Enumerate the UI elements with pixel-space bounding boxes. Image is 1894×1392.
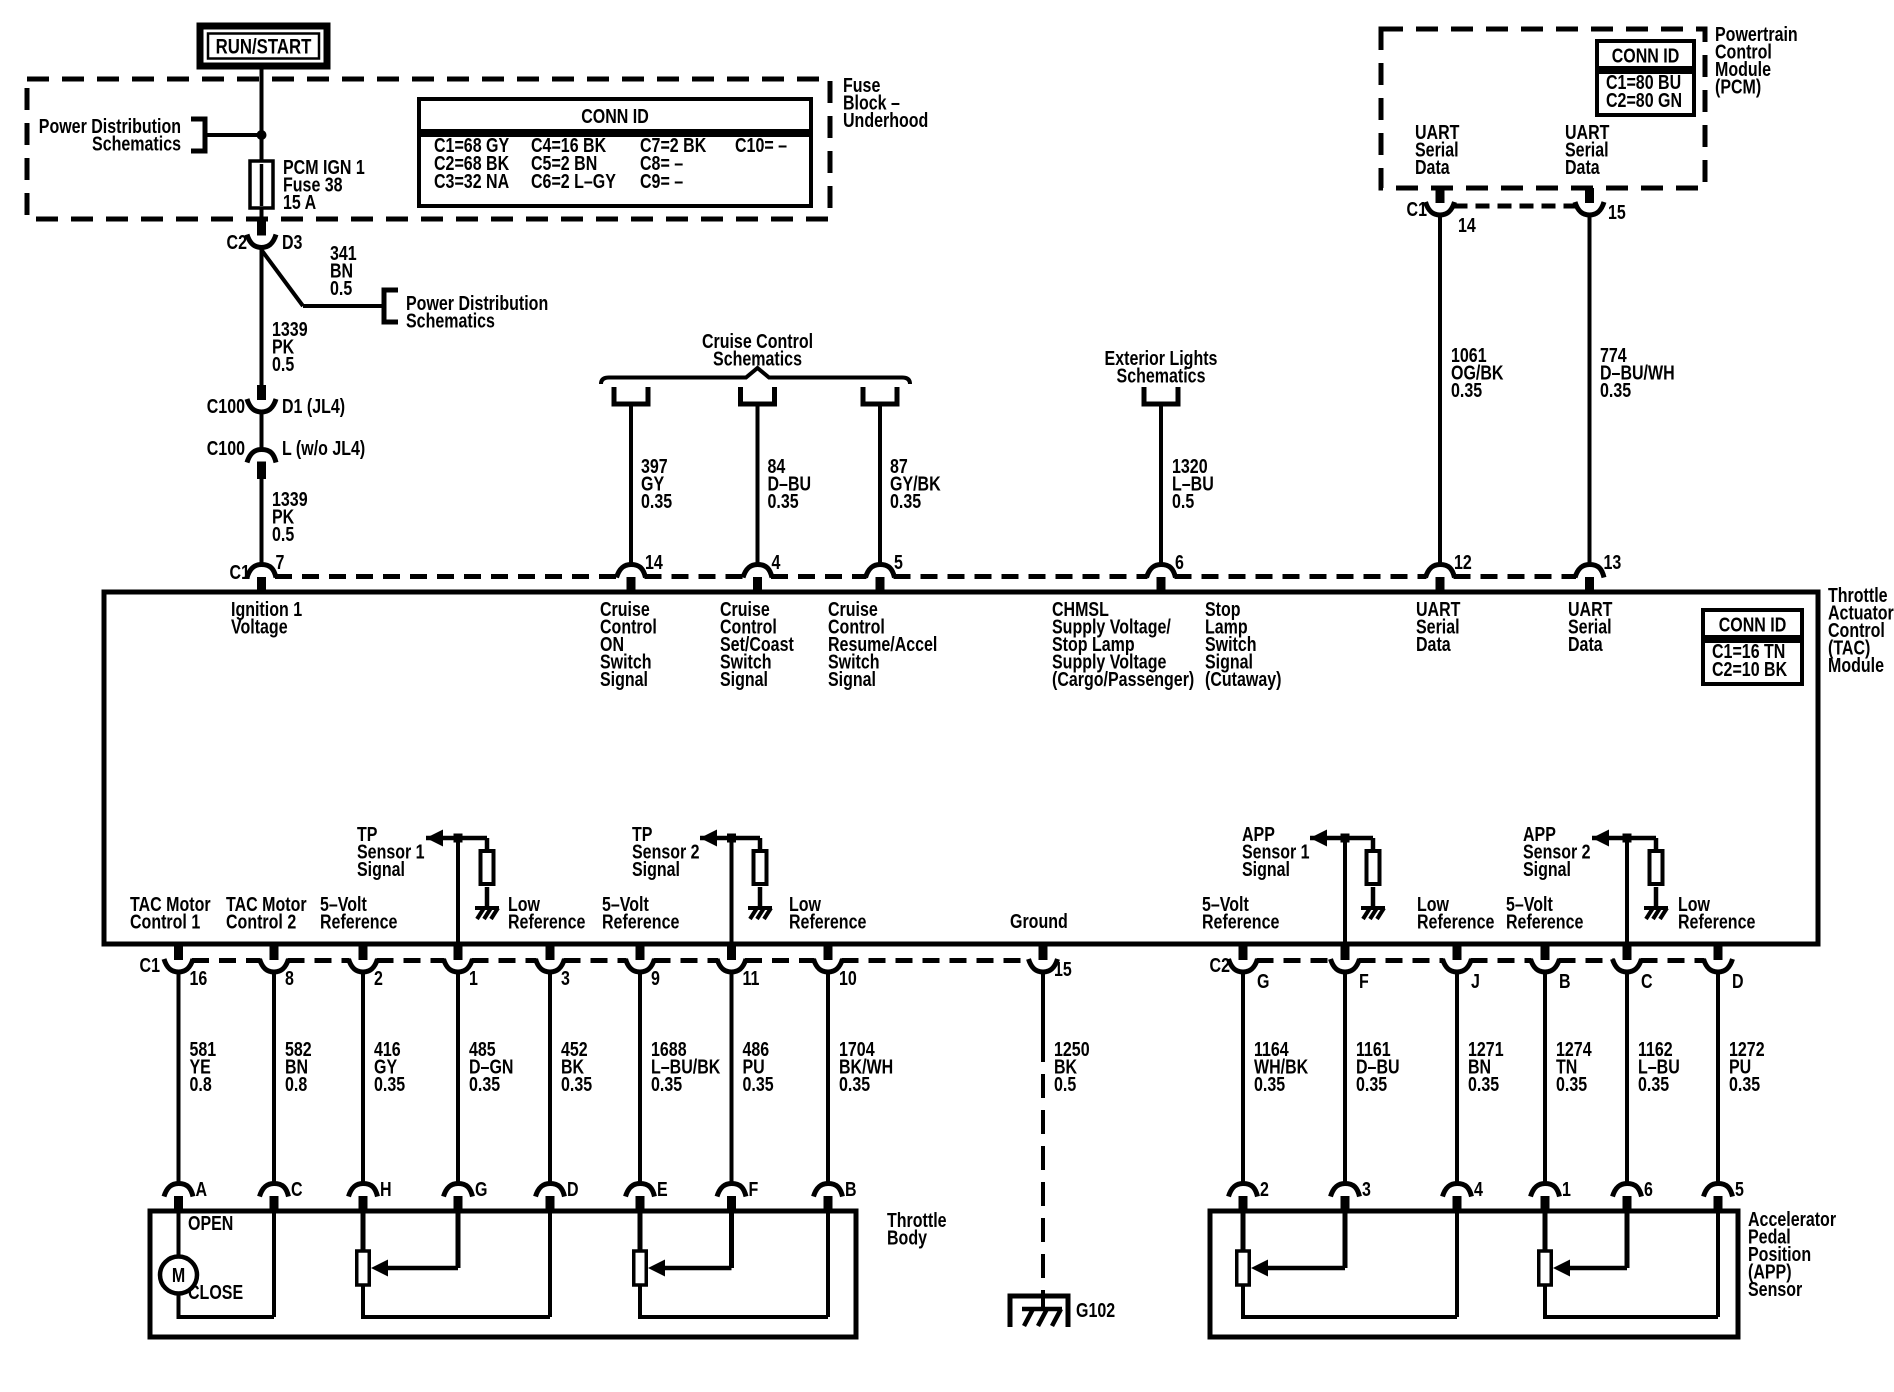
svg-text:C100: C100 <box>207 395 245 417</box>
connector C2 pin B TAC bottom <box>1541 946 1550 960</box>
throttle position sensor 1 potentiometer <box>361 1212 366 1251</box>
wire 1704 BK/WH to pin B <box>826 973 830 1182</box>
label UART Serial Data PCM pin 15 <box>1565 121 1609 178</box>
label Exterior Lights Schematics <box>1105 347 1218 387</box>
pull resistor APP Sensor 1 <box>1367 851 1380 884</box>
wire ignition feed vertical in fuse block <box>260 82 264 161</box>
connector pin 4 component <box>1443 1184 1472 1197</box>
connector ID table PCM <box>1597 41 1694 68</box>
connector C100 pin L (w/o JL4) <box>260 413 264 449</box>
label Ground pin 15 <box>1010 910 1068 932</box>
svg-text:C2=80 GN: C2=80 GN <box>1606 89 1682 111</box>
svg-text:4: 4 <box>772 551 781 573</box>
label TAC Motor Control 1 <box>130 893 211 933</box>
wire APP pot2 to pin 5 <box>1543 1286 1547 1317</box>
svg-text:D: D <box>1732 970 1744 992</box>
off-page reference Power Distribution Schematics (341 BN) <box>384 290 398 322</box>
wiper arrow from pin G <box>456 1212 461 1268</box>
wire pot2 to pin B <box>638 1286 642 1317</box>
connector C1 pin 2 TAC bottom <box>359 946 368 960</box>
label Fuse Block - Underhood <box>843 74 928 131</box>
label Cruise Control Resume/Accel Switch Signal <box>828 598 937 690</box>
label wire 1320 L-BU 0.5 <box>1172 455 1214 512</box>
svg-text:12: 12 <box>1454 551 1472 573</box>
wire motor to pin C <box>177 1293 181 1317</box>
svg-text:5: 5 <box>1735 1178 1744 1200</box>
label UART Serial Data TAC pin 13 <box>1568 598 1612 655</box>
svg-text:10: 10 <box>839 967 857 989</box>
svg-text:1: 1 <box>469 967 478 989</box>
dashed connector row TAC C1 top <box>275 574 618 579</box>
label Low Reference pin J <box>1417 893 1494 933</box>
powertrain control module box <box>1381 29 1705 188</box>
throttle body box <box>150 1211 856 1337</box>
label UART Serial Data PCM pin 14 <box>1415 121 1459 178</box>
label wire 341 BN 0.5 <box>330 242 357 299</box>
off-page cruise control wire to pin 4 <box>741 387 775 404</box>
wire 486 PU to pin F <box>730 973 734 1182</box>
label Cruise Control Set/Coast Switch Signal <box>720 598 794 690</box>
svg-text:CONN ID: CONN ID <box>581 105 649 127</box>
svg-text:3: 3 <box>1362 1178 1371 1200</box>
wire 1688 L–BU/BK to pin E <box>638 973 642 1182</box>
wire 1164 WH/BK to pin 2 <box>1241 973 1245 1182</box>
label TAC Motor Control 2 <box>226 893 307 933</box>
label OPEN <box>188 1212 233 1234</box>
connector pin 2 component <box>1229 1184 1258 1197</box>
svg-text:C3=32 NA: C3=32 NA <box>434 170 509 192</box>
dashed connector row TAC C1 bottom <box>192 958 261 963</box>
connector C1 pin 1 TAC bottom <box>454 946 463 960</box>
svg-text:D: D <box>567 1178 579 1200</box>
label Low Reference pin 10 <box>789 893 866 933</box>
wire 582 BN to pin C <box>272 973 276 1182</box>
wire 1250 BK ground pin 15 <box>1041 973 1045 1038</box>
ground TP Sensor 1 <box>485 887 490 908</box>
signal tap APP Sensor 1 <box>1242 823 1310 880</box>
APP sensor 2 potentiometer <box>1543 1212 1548 1251</box>
wire 1061 OG/BK <box>1438 216 1442 564</box>
label wire 84 D–BU <box>768 455 812 512</box>
svg-text:OPEN: OPEN <box>188 1212 233 1234</box>
signal tap APP Sensor 2 <box>1523 823 1591 880</box>
svg-text:6: 6 <box>1644 1178 1653 1200</box>
connector C1 pin 7 TAC top <box>247 565 276 578</box>
wire 1339 PK upper segment <box>260 249 264 400</box>
wire 341 BN to power distribution <box>260 249 264 252</box>
svg-text:5: 5 <box>894 551 903 573</box>
label wire 1339 PK 0.5 upper <box>272 318 308 375</box>
connector C1 pin 15 TAC bottom <box>1039 946 1048 960</box>
label Low Reference pin 3 <box>508 893 585 933</box>
label Throttle Body <box>887 1209 947 1249</box>
label wire 774 D-BU/WH 0.35 <box>1600 344 1675 401</box>
connector C1 pin 13 TAC top <box>1575 565 1604 578</box>
svg-text:7: 7 <box>276 551 285 573</box>
connector pin 1 component <box>1531 1184 1560 1197</box>
svg-text:14: 14 <box>645 551 663 573</box>
throttle actuator control module box <box>104 592 1818 944</box>
pull resistor APP Sensor 2 <box>1650 851 1663 884</box>
svg-text:Exterior LightsSchematics: Exterior LightsSchematics <box>1105 347 1218 387</box>
signal tap TP Sensor 1 <box>357 823 425 880</box>
fuse F38 PCM IGN 1 15A <box>260 161 264 219</box>
accelerator pedal position sensor box <box>1210 1211 1738 1337</box>
connector C1 pin 5 TAC top <box>866 565 895 578</box>
svg-text:A: A <box>196 1178 208 1200</box>
connector pin 6 component <box>1613 1184 1642 1197</box>
svg-text:H: H <box>380 1178 392 1200</box>
svg-text:J: J <box>1471 970 1480 992</box>
connector ID table TAC <box>1703 610 1802 637</box>
wiper arrow from pin 6 <box>1625 1212 1630 1268</box>
svg-text:C9= –: C9= – <box>640 170 683 192</box>
connector C2 pin D3 fuse block <box>257 219 266 236</box>
label wire 1250 BK 0.5 <box>1054 1038 1090 1095</box>
wiper arrow from pin 3 <box>1343 1212 1348 1268</box>
wire 1274 TN to pin 1 <box>1543 973 1547 1182</box>
connector C2 pin F TAC bottom <box>1341 946 1350 960</box>
connector C2 pin G TAC bottom <box>1239 946 1248 960</box>
wire APP pot1 to pin 4 <box>1241 1286 1245 1317</box>
label G102 <box>1076 1299 1115 1321</box>
svg-text:C2: C2 <box>1210 954 1230 976</box>
svg-text:13: 13 <box>1604 551 1622 573</box>
wire 452 BK to pin D <box>548 973 552 1182</box>
connector pin G component <box>444 1184 473 1197</box>
ground APP Sensor 2 <box>1654 887 1659 908</box>
label Accelerator Pedal Position (APP) Sensor <box>1748 1208 1836 1300</box>
connector C1 pin 16 TAC bottom <box>174 946 183 960</box>
svg-text:8: 8 <box>285 967 294 989</box>
dashed connector row PCM C1 <box>1454 204 1577 209</box>
connector C1 pin 14 PCM <box>1436 188 1445 203</box>
connector pin C component <box>260 1184 289 1197</box>
wiper arrow from pin F <box>729 1212 734 1268</box>
svg-text:CONN ID: CONN ID <box>1719 614 1787 636</box>
brace cruise control group <box>601 368 910 384</box>
svg-text:C: C <box>291 1178 303 1200</box>
svg-text:4: 4 <box>1474 1178 1483 1200</box>
svg-text:B: B <box>1559 970 1571 992</box>
connector C1 pin 4 TAC top <box>743 565 772 578</box>
off-page cruise control wire to pin 14 <box>614 387 648 404</box>
svg-text:C1: C1 <box>140 954 160 976</box>
svg-text:16: 16 <box>190 967 208 989</box>
svg-text:11: 11 <box>743 967 760 989</box>
label Low Reference pin D <box>1678 893 1755 933</box>
svg-text:Cruise ControlSchematics: Cruise ControlSchematics <box>702 330 813 370</box>
connector pin 3 component <box>1331 1184 1360 1197</box>
svg-text:C6=2 L–GY: C6=2 L–GY <box>531 170 616 192</box>
label Ignition 1 Voltage <box>231 598 302 638</box>
wire 1271 BN to pin 4 <box>1455 973 1459 1182</box>
label wire 1339 PK 0.5 lower <box>272 488 308 545</box>
wire 1162 L–BU to pin 6 <box>1625 973 1629 1182</box>
svg-text:G: G <box>475 1178 487 1200</box>
connector C1 pin 8 TAC bottom <box>270 946 279 960</box>
label 5-Volt Reference pin G <box>1202 893 1279 933</box>
connector pin H component <box>349 1184 378 1197</box>
svg-text:2: 2 <box>1260 1178 1269 1200</box>
connector C1 pin 12 TAC top <box>1426 565 1455 578</box>
connector C2 pin D TAC bottom <box>1714 946 1723 960</box>
connector pin E component <box>626 1184 655 1197</box>
connector C2 pin J TAC bottom <box>1453 946 1462 960</box>
connector C100 pin D1 (JL4) <box>257 385 266 400</box>
label wire 87 GY/BK <box>890 455 941 512</box>
off-page exterior lights wire to pin 6 <box>1144 387 1178 404</box>
label Stop Lamp Switch Signal (Cutaway) <box>1205 598 1281 690</box>
svg-text:3: 3 <box>561 967 570 989</box>
ground APP Sensor 1 <box>1371 887 1376 908</box>
label wire 1061 OG/BK 0.35 <box>1451 344 1503 401</box>
connector pin B component <box>814 1184 843 1197</box>
svg-text:G: G <box>1257 970 1269 992</box>
label 5-Volt Reference pin 9 <box>602 893 679 933</box>
fuse block underhood box <box>27 79 830 219</box>
wire 485 D–GN to pin G <box>456 973 460 1182</box>
label CLOSE <box>188 1281 243 1303</box>
wire off-page to ignition feed <box>205 133 262 137</box>
svg-text:L (w/o JL4): L (w/o JL4) <box>282 437 365 459</box>
svg-text:9: 9 <box>651 967 660 989</box>
connector C1 pin 15 PCM <box>1585 188 1594 203</box>
label 5-Volt Reference pin B <box>1506 893 1583 933</box>
wire 581 YE to pin A <box>177 973 181 1182</box>
connector C2 pin C TAC bottom <box>1623 946 1632 960</box>
junction dot ignition feed <box>257 130 267 140</box>
wire 774 D-BU/WH <box>1588 216 1592 564</box>
svg-text:C1: C1 <box>1407 198 1427 220</box>
dashed connector row TAC C2 bottom <box>1257 958 1332 963</box>
label wire 397 GY <box>641 455 672 512</box>
label Cruise Control ON Switch Signal <box>600 598 657 690</box>
svg-text:C2: C2 <box>227 231 247 253</box>
connector C1 pin 11 TAC bottom <box>727 946 736 960</box>
ground G102 <box>1010 1296 1068 1327</box>
wire 1161 D–BU to pin 3 <box>1343 973 1347 1182</box>
wire RUN/START to fuse block <box>260 66 264 82</box>
label Cruise Control Schematics <box>702 330 813 370</box>
svg-text:Ground: Ground <box>1010 910 1068 932</box>
svg-text:C10= –: C10= – <box>735 134 787 156</box>
svg-text:CONN ID: CONN ID <box>1612 45 1680 67</box>
svg-text:D1 (JL4): D1 (JL4) <box>282 395 345 417</box>
pull resistor TP Sensor 1 <box>481 851 494 884</box>
wire 416 GY to pin H <box>361 973 365 1182</box>
switch RUN/START ignition feed <box>200 26 327 66</box>
off-page reference Power Distribution Schematics (fuse block) <box>39 115 181 155</box>
label PCM IGN 1 Fuse 38 15 A <box>283 156 365 213</box>
connector C1 pin 3 TAC bottom <box>546 946 555 960</box>
svg-text:TAC MotorControl 2: TAC MotorControl 2 <box>226 893 307 933</box>
pull resistor TP Sensor 2 <box>754 851 767 884</box>
label Powertrain Control Module (PCM) <box>1715 23 1798 98</box>
off-page cruise control wire to pin 5 <box>863 387 897 404</box>
svg-text:6: 6 <box>1175 551 1184 573</box>
throttle motor M <box>177 1212 181 1257</box>
connector pin F component <box>717 1184 746 1197</box>
svg-text:RUN/START: RUN/START <box>216 36 312 59</box>
svg-text:15: 15 <box>1608 201 1626 223</box>
svg-text:2: 2 <box>374 967 383 989</box>
svg-text:1: 1 <box>1562 1178 1571 1200</box>
wire 1339 PK lower segment <box>260 479 264 564</box>
APP sensor 1 potentiometer <box>1241 1212 1246 1251</box>
label 5-Volt Reference pin 2 <box>320 893 397 933</box>
svg-text:B: B <box>845 1178 857 1200</box>
label UART Serial Data TAC pin 12 <box>1416 598 1460 655</box>
wire pot1 to pin D <box>361 1286 365 1317</box>
connector C1 pin 6 TAC top <box>1147 565 1176 578</box>
connector pin 5 component <box>1704 1184 1733 1197</box>
svg-text:TAC MotorControl 1: TAC MotorControl 1 <box>130 893 211 933</box>
svg-text:C: C <box>1641 970 1653 992</box>
connector pin D component <box>536 1184 565 1197</box>
svg-text:F: F <box>1359 970 1369 992</box>
signal tap TP Sensor 2 <box>632 823 700 880</box>
svg-text:C2=10 BK: C2=10 BK <box>1712 658 1787 680</box>
svg-text:E: E <box>657 1178 668 1200</box>
svg-text:ThrottleActuatorControl(TAC)Mo: ThrottleActuatorControl(TAC)Module <box>1828 584 1894 676</box>
svg-text:M: M <box>172 1264 185 1286</box>
svg-text:14: 14 <box>1458 214 1476 236</box>
svg-text:G102: G102 <box>1076 1299 1115 1321</box>
connector pin A component <box>164 1184 193 1197</box>
svg-text:15: 15 <box>1054 958 1072 980</box>
label Throttle Actuator Control (TAC) Module <box>1828 584 1894 676</box>
connector C1 pin 14 TAC top <box>617 565 646 578</box>
svg-text:C100: C100 <box>207 437 245 459</box>
connector ID table fuse block <box>419 99 811 131</box>
ground TP Sensor 2 <box>758 887 763 908</box>
svg-text:D3: D3 <box>282 231 302 253</box>
label CHMSL Supply Voltage / Stop Lamp Supply Voltage <box>1052 598 1194 690</box>
throttle position sensor 2 potentiometer <box>638 1212 643 1251</box>
connector C1 pin 9 TAC bottom <box>636 946 645 960</box>
svg-text:F: F <box>749 1178 759 1200</box>
wire 1272 PU to pin 5 <box>1716 973 1720 1182</box>
connector C1 pin 10 TAC bottom <box>824 946 833 960</box>
